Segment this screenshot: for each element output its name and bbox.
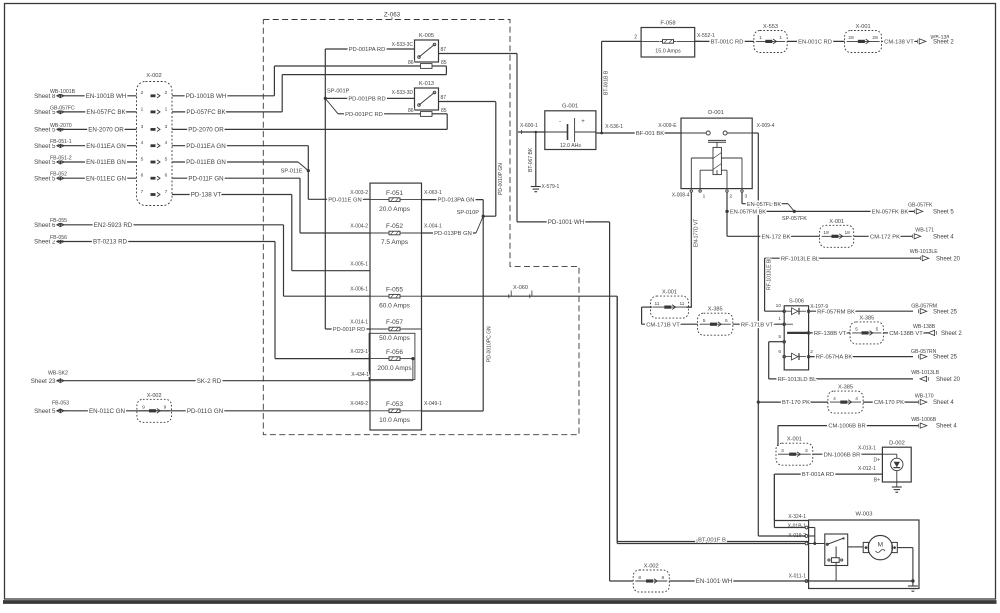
svg-text:PD-001PC RD: PD-001PC RD [345, 112, 383, 118]
svg-text:3: 3 [141, 124, 144, 130]
svg-text:X-533-3C: X-533-3C [392, 42, 414, 48]
svg-text:PD-1001B WH: PD-1001B WH [186, 93, 227, 100]
svg-text:RF-057RM BK: RF-057RM BK [817, 309, 855, 315]
svg-text:RF-1013LE BL: RF-1013LE BL [781, 256, 820, 262]
svg-text:CM-1006B BR: CM-1006B BR [828, 424, 865, 430]
svg-text:PD-011G GN: PD-011G GN [187, 408, 223, 415]
svg-text:PD-013PA GN: PD-013PA GN [438, 198, 475, 204]
svg-text:DN-1006B BR: DN-1006B BR [824, 452, 861, 458]
svg-text:1: 1 [759, 35, 762, 41]
svg-text:2: 2 [730, 193, 733, 199]
svg-text:15.0 Amps: 15.0 Amps [655, 49, 681, 55]
svg-text:3: 3 [165, 124, 168, 130]
svg-text:X-060: X-060 [513, 285, 528, 291]
svg-text:5: 5 [855, 327, 858, 333]
svg-text:Sheet 4: Sheet 4 [933, 400, 954, 406]
svg-text:PD-001P RD: PD-001P RD [333, 327, 365, 333]
svg-text:Sheet 5: Sheet 5 [933, 210, 954, 216]
svg-text:PD-1001 WH: PD-1001 WH [548, 219, 584, 226]
svg-text:10.0 Amps: 10.0 Amps [379, 417, 410, 424]
svg-text:8: 8 [638, 575, 641, 581]
svg-text:11: 11 [655, 301, 660, 307]
svg-text:EN-177D VT: EN-177D VT [693, 219, 699, 247]
svg-text:BT-001F B: BT-001F B [698, 537, 726, 543]
svg-text:X-002: X-002 [644, 564, 659, 570]
svg-text:Sheet 5: Sheet 5 [34, 408, 56, 415]
svg-text:9: 9 [142, 405, 145, 411]
svg-text:WB-170: WB-170 [915, 393, 934, 399]
svg-text:86: 86 [408, 108, 414, 114]
svg-text:F-056: F-056 [386, 349, 403, 356]
svg-text:Sheet 23: Sheet 23 [31, 378, 56, 385]
svg-text:WB-1006B: WB-1006B [911, 417, 937, 423]
svg-text:X-385: X-385 [708, 307, 723, 313]
svg-text:PD-138 VT: PD-138 VT [191, 192, 222, 199]
svg-text:CM-138B VT: CM-138B VT [889, 331, 923, 337]
svg-text:CM-138 VT: CM-138 VT [884, 40, 914, 46]
svg-text:EN-1001B WH: EN-1001B WH [86, 93, 127, 100]
svg-text:10: 10 [776, 303, 782, 309]
svg-text:X-023-1: X-023-1 [350, 349, 368, 355]
svg-text:7: 7 [165, 189, 168, 195]
svg-text:PD-011F GN: PD-011F GN [188, 175, 223, 182]
svg-text:BT-170 PK: BT-170 PK [782, 400, 810, 406]
svg-text:9: 9 [164, 405, 167, 411]
svg-text:7.5 Amps: 7.5 Amps [381, 239, 409, 246]
svg-text:7: 7 [141, 189, 144, 195]
svg-text:X-536-1: X-536-1 [605, 124, 623, 130]
svg-text:GB-057FK: GB-057FK [908, 202, 933, 208]
svg-text:60.0 Amps: 60.0 Amps [379, 302, 410, 309]
svg-text:FB-052: FB-052 [50, 172, 67, 178]
svg-text:PD-0010P GN: PD-0010P GN [498, 163, 504, 195]
svg-text:W-003: W-003 [856, 512, 873, 518]
svg-text:Sheet 25: Sheet 25 [933, 309, 958, 315]
svg-text:5: 5 [703, 318, 706, 324]
svg-text:X-012-1: X-012-1 [858, 466, 876, 472]
svg-text:WB-1013LB: WB-1013LB [911, 370, 940, 376]
svg-text:4: 4 [165, 140, 168, 146]
svg-text:BT-001B B: BT-001B B [603, 70, 609, 95]
svg-text:2: 2 [634, 34, 637, 40]
svg-text:PD-011EA GN: PD-011EA GN [186, 143, 225, 150]
svg-text:Sheet 20: Sheet 20 [936, 377, 961, 383]
svg-text:28: 28 [872, 35, 878, 41]
svg-text:SP-010P: SP-010P [457, 210, 480, 216]
svg-text:PD-0010PC GN: PD-0010PC GN [487, 326, 493, 362]
svg-text:12.0 AHs: 12.0 AHs [560, 143, 581, 149]
svg-text:RF-1013LD BL: RF-1013LD BL [778, 377, 817, 383]
svg-text:PD-2070 OR: PD-2070 OR [188, 127, 224, 134]
svg-text:F-055: F-055 [386, 286, 403, 293]
svg-text:X-049-1: X-049-1 [424, 401, 442, 407]
svg-text:5: 5 [876, 327, 879, 333]
svg-text:X-014-1: X-014-1 [350, 319, 368, 325]
svg-text:FB-056: FB-056 [50, 235, 67, 241]
svg-text:EN-057FC BK: EN-057FC BK [86, 109, 126, 116]
svg-text:2: 2 [141, 90, 144, 96]
svg-text:WB-138B: WB-138B [913, 324, 936, 330]
svg-text:86: 86 [408, 60, 414, 66]
svg-text:2: 2 [165, 90, 168, 96]
svg-text:EN-057FL BK: EN-057FL BK [747, 202, 782, 208]
svg-text:3: 3 [745, 193, 748, 199]
svg-text:85: 85 [441, 108, 447, 114]
svg-text:X-002: X-002 [146, 73, 161, 79]
svg-text:PD-057FC BK: PD-057FC BK [186, 109, 226, 116]
svg-text:X-324-1: X-324-1 [788, 514, 806, 520]
svg-text:X-009-4: X-009-4 [757, 123, 775, 129]
svg-text:PD-001PA RD: PD-001PA RD [349, 47, 386, 53]
svg-text:RF-171B VT: RF-171B VT [741, 322, 774, 328]
svg-text:1: 1 [141, 106, 144, 112]
svg-text:18: 18 [823, 230, 829, 236]
svg-text:2: 2 [810, 349, 813, 355]
svg-text:EN-1001 WH: EN-1001 WH [696, 578, 732, 585]
svg-text:CM-170 PK: CM-170 PK [874, 400, 904, 406]
svg-text:1: 1 [165, 106, 168, 112]
svg-text:GB-057FC: GB-057FC [50, 105, 75, 111]
svg-text:EN-001C RD: EN-001C RD [798, 40, 832, 46]
svg-text:-: - [559, 119, 561, 125]
svg-text:3: 3 [805, 448, 808, 454]
svg-text:X-003-2: X-003-2 [350, 190, 368, 196]
svg-text:FB-053: FB-053 [52, 401, 69, 407]
svg-text:Sheet 25: Sheet 25 [933, 355, 958, 361]
svg-text:X-011-1: X-011-1 [789, 574, 807, 580]
svg-text:X-013-1: X-013-1 [858, 445, 876, 451]
svg-text:SP-057FK: SP-057FK [782, 216, 807, 222]
svg-text:11: 11 [680, 301, 685, 307]
svg-text:X-001: X-001 [829, 219, 844, 225]
svg-text:4: 4 [833, 396, 836, 402]
svg-text:F-053: F-053 [386, 401, 403, 408]
svg-text:G-001: G-001 [562, 104, 578, 110]
svg-text:D-001: D-001 [708, 110, 724, 116]
svg-text:BT-001A RD: BT-001A RD [802, 472, 834, 478]
svg-text:X-385: X-385 [838, 385, 853, 391]
svg-text:SK-2 RD: SK-2 RD [197, 378, 222, 385]
svg-text:FB-051-2: FB-051-2 [50, 155, 72, 161]
svg-text:50.0 Amps: 50.0 Amps [379, 335, 410, 342]
svg-text:PD-013PB GN: PD-013PB GN [434, 231, 472, 237]
svg-text:8: 8 [661, 575, 664, 581]
svg-text:CM-171B VT: CM-171B VT [646, 322, 680, 328]
svg-text:+: + [581, 119, 585, 125]
svg-text:B+: B+ [874, 478, 880, 484]
svg-text:D-002: D-002 [889, 441, 905, 447]
svg-text:F-052: F-052 [386, 223, 403, 230]
svg-text:EN-011EA GN: EN-011EA GN [86, 143, 125, 150]
svg-text:X-049-2: X-049-2 [350, 401, 368, 407]
svg-text:M: M [878, 542, 883, 549]
svg-text:X-001: X-001 [856, 24, 871, 30]
svg-text:SP-011E: SP-011E [281, 169, 303, 175]
svg-text:PD-011EB GN: PD-011EB GN [186, 159, 226, 166]
svg-text:Sheet 2: Sheet 2 [941, 331, 962, 337]
svg-text:BT-001C RD: BT-001C RD [711, 40, 744, 46]
svg-text:X-063-1: X-063-1 [424, 190, 442, 196]
svg-text:BT-067 BK: BT-067 BK [528, 147, 534, 172]
svg-text:K-013: K-013 [419, 81, 434, 87]
svg-text:WB-1001B: WB-1001B [50, 89, 76, 95]
svg-text:1: 1 [779, 35, 782, 41]
svg-text:WB-1013LE: WB-1013LE [910, 249, 939, 255]
svg-text:87: 87 [441, 47, 447, 53]
svg-text:PD-011E GN: PD-011E GN [328, 197, 361, 203]
svg-text:EN-057FM BK: EN-057FM BK [730, 210, 766, 216]
svg-text:RF-057HA BK: RF-057HA BK [816, 355, 853, 361]
svg-text:X-001: X-001 [662, 290, 677, 296]
svg-text:87: 87 [441, 95, 447, 101]
svg-text:X-434-1: X-434-1 [351, 372, 369, 378]
svg-text:S-006: S-006 [789, 299, 804, 305]
svg-text:EN-172 BK: EN-172 BK [762, 234, 791, 240]
svg-text:5: 5 [725, 318, 728, 324]
svg-text:X-553: X-553 [763, 24, 778, 30]
svg-text:Sheet 2: Sheet 2 [933, 40, 954, 46]
svg-text:5: 5 [778, 334, 781, 340]
svg-text:CM-172 PK: CM-172 PK [870, 234, 900, 240]
svg-text:X-005-1: X-005-1 [350, 262, 368, 268]
svg-text:EN-057FK BK: EN-057FK BK [872, 210, 909, 216]
svg-text:FB-055: FB-055 [50, 218, 67, 224]
svg-text:5: 5 [165, 156, 168, 162]
svg-text:SP-001P: SP-001P [327, 88, 350, 94]
svg-text:D+: D+ [873, 458, 880, 464]
svg-text:EN-011C GN: EN-011C GN [89, 408, 125, 415]
svg-text:EN-2070 OR: EN-2070 OR [88, 127, 124, 134]
svg-text:Sheet 4: Sheet 4 [936, 424, 957, 430]
svg-text:5: 5 [141, 156, 144, 162]
svg-text:EN-011EC GN: EN-011EC GN [86, 175, 126, 182]
svg-text:PD-001PB RD: PD-001PB RD [348, 97, 385, 103]
svg-text:85: 85 [441, 60, 447, 66]
svg-text:X-600-1: X-600-1 [520, 123, 538, 129]
svg-text:28: 28 [848, 35, 854, 41]
svg-text:X-001: X-001 [787, 437, 802, 443]
svg-text:X-533-3D: X-533-3D [392, 90, 414, 96]
svg-text:18: 18 [845, 230, 851, 236]
svg-text:FB-051-1: FB-051-1 [50, 139, 72, 145]
svg-text:1: 1 [778, 316, 781, 322]
svg-text:6: 6 [165, 173, 168, 179]
svg-text:X-579-1: X-579-1 [542, 184, 560, 190]
svg-text:X-002: X-002 [147, 393, 162, 399]
svg-text:BF-001 BK: BF-001 BK [636, 131, 664, 137]
svg-text:F-057: F-057 [386, 319, 403, 326]
svg-text:RF-1013LE BL: RF-1013LE BL [767, 257, 773, 290]
svg-text:Sheet 20: Sheet 20 [936, 256, 961, 262]
svg-text:4: 4 [855, 396, 858, 402]
svg-text:BT-0213 RD: BT-0213 RD [93, 239, 128, 246]
svg-text:WB-SK2: WB-SK2 [48, 370, 68, 376]
svg-text:6: 6 [141, 173, 144, 179]
svg-text:X-385: X-385 [859, 315, 874, 321]
svg-text:X-004-2: X-004-2 [350, 223, 368, 229]
svg-text:EN-011EB GN: EN-011EB GN [86, 159, 126, 166]
svg-text:X-006-1: X-006-1 [350, 287, 368, 293]
svg-text:F-058: F-058 [660, 21, 675, 27]
svg-text:X-552-1: X-552-1 [697, 33, 715, 39]
svg-text:X-008-4: X-008-4 [672, 193, 690, 199]
svg-text:EN2-5923 RD: EN2-5923 RD [94, 222, 133, 229]
svg-text:K-005: K-005 [419, 33, 434, 39]
svg-text:F-051: F-051 [386, 190, 403, 197]
svg-text:6: 6 [778, 349, 781, 355]
svg-text:RF-138B VT: RF-138B VT [814, 331, 847, 337]
svg-text:X-009-E: X-009-E [658, 123, 677, 129]
svg-text:Sheet 4: Sheet 4 [933, 234, 954, 240]
svg-text:X-01B-1: X-01B-1 [788, 523, 807, 529]
svg-text:1: 1 [703, 193, 706, 199]
svg-text:20.0 Amps: 20.0 Amps [379, 206, 410, 213]
svg-text:200.0 Amps: 200.0 Amps [377, 365, 412, 372]
svg-text:X-004-1: X-004-1 [424, 223, 442, 229]
svg-text:WB-171: WB-171 [915, 227, 934, 233]
svg-text:3: 3 [781, 448, 784, 454]
svg-text:WB-2070: WB-2070 [50, 123, 72, 129]
svg-text:Z-063: Z-063 [384, 12, 401, 19]
svg-text:4: 4 [141, 140, 144, 146]
